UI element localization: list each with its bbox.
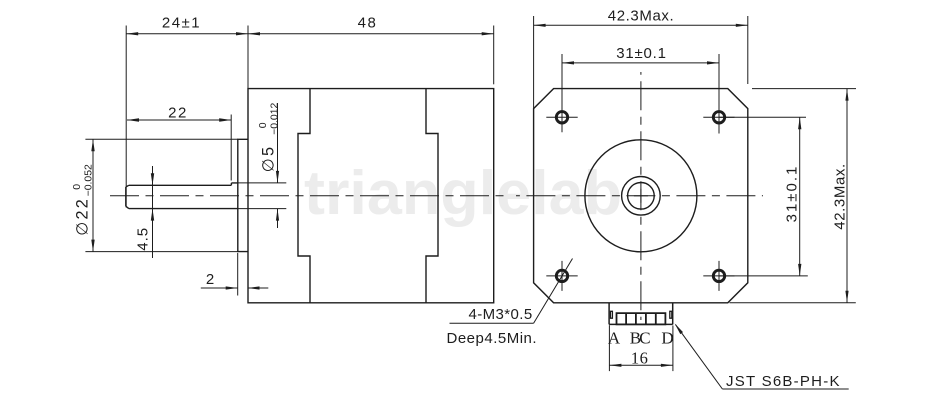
svg-text:42.3Max.: 42.3Max.: [831, 163, 848, 230]
svg-text:∅5: ∅5: [260, 145, 278, 173]
svg-text:4.5: 4.5: [135, 227, 152, 251]
svg-text:24±1: 24±1: [162, 14, 201, 31]
svg-text:42.3Max.: 42.3Max.: [608, 8, 675, 25]
svg-text:22: 22: [168, 105, 188, 122]
svg-text:−0.052: −0.052: [84, 164, 95, 196]
svg-text:0: 0: [72, 184, 83, 190]
svg-text:16: 16: [631, 348, 649, 367]
svg-text:JST S6B-PH-K: JST S6B-PH-K: [726, 373, 841, 390]
svg-text:4-M3*0.5: 4-M3*0.5: [469, 306, 533, 323]
svg-text:31±0.1: 31±0.1: [783, 165, 800, 223]
svg-text:0: 0: [258, 122, 269, 128]
svg-text:−0.012: −0.012: [270, 103, 281, 135]
svg-text:D: D: [661, 329, 673, 348]
svg-text:∅22: ∅22: [74, 197, 92, 236]
svg-text:2: 2: [206, 271, 214, 288]
svg-text:Deep4.5Min.: Deep4.5Min.: [447, 330, 538, 347]
svg-text:C: C: [639, 329, 650, 348]
svg-text:48: 48: [358, 14, 378, 31]
svg-text:trianglelab: trianglelab: [304, 159, 622, 228]
svg-text:31±0.1: 31±0.1: [616, 45, 667, 62]
